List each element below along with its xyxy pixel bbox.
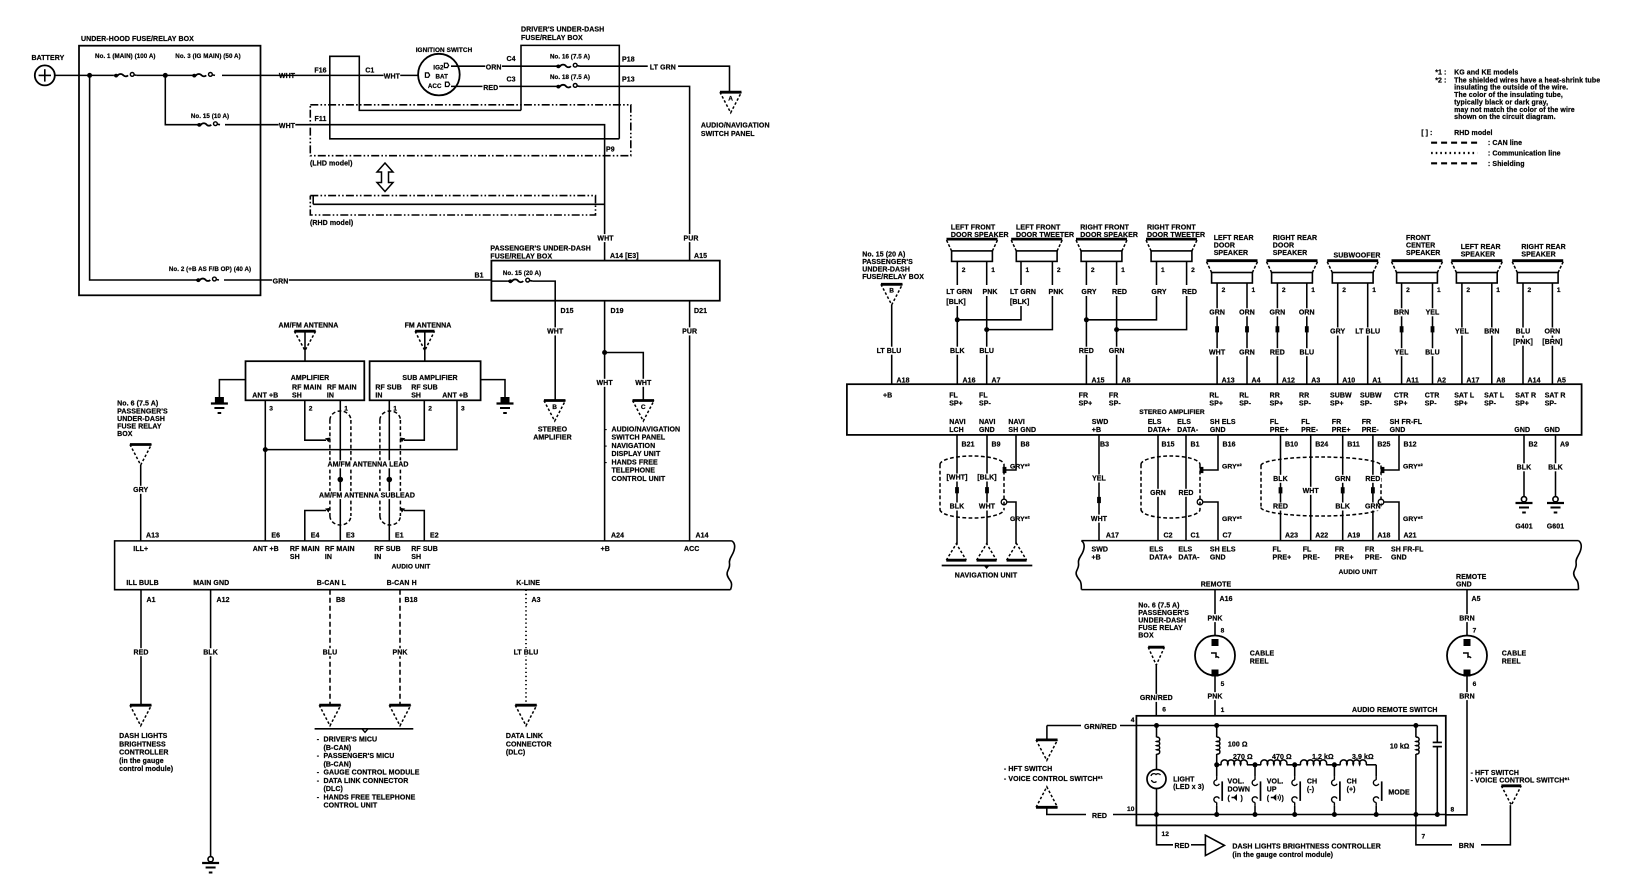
svg-text:REEL: REEL: [1502, 658, 1522, 665]
svg-text:No. 2 (+B AS F/B OP) (40 A): No. 2 (+B AS F/B OP) (40 A): [169, 266, 251, 273]
left rear speaker pins: [1466, 287, 1500, 294]
wire SH ELS GND lower tap: [1197, 499, 1218, 540]
svg-text:SP+: SP+: [1394, 401, 1408, 408]
svg-text:NAVI: NAVI: [979, 419, 996, 426]
wire PNK B-CAN H: [399, 590, 401, 706]
svg-text:WHT: WHT: [547, 329, 564, 336]
ignition switch: [416, 47, 473, 95]
wire No.2 branch GRN: [90, 75, 492, 280]
amplifier ground left: [211, 380, 246, 413]
svg-text:ILL+: ILL+: [133, 546, 148, 553]
svg-text:(-): (-): [1307, 787, 1314, 794]
svg-text:GND: GND: [1514, 427, 1530, 434]
label REMOTE GND: [1456, 574, 1487, 589]
label WHT branch left: [596, 379, 613, 387]
wire BLU B-CAN L: [329, 590, 331, 706]
svg-text:A12: A12: [217, 597, 230, 604]
label RED: [482, 84, 499, 92]
svg-text:IN: IN: [374, 554, 381, 561]
svg-text:FL: FL: [949, 393, 958, 400]
wire RED HFT to pin 10: [1047, 807, 1157, 814]
svg-text:E2: E2: [430, 532, 439, 539]
svg-text:LEFT REAR: LEFT REAR: [1461, 244, 1501, 251]
svg-text:GRY: GRY: [1151, 289, 1166, 296]
svg-text:A5: A5: [1557, 377, 1566, 384]
pin 1 audio remote switch: [1221, 707, 1225, 714]
node rail junction GRN/RED: [1154, 723, 1159, 728]
wire SH FR-FL GND lower tap: [1378, 499, 1399, 540]
svg-text:1: 1: [1161, 267, 1165, 274]
svg-text:YEL: YEL: [1426, 310, 1440, 317]
label RED ILL: [133, 648, 150, 656]
svg-text:SP+: SP+: [1270, 401, 1284, 408]
svg-text:1.2 kΩ: 1.2 kΩ: [1312, 754, 1334, 761]
svg-text:WHT: WHT: [635, 380, 652, 387]
labels wire colors upper right rear speaker: [1510, 328, 1565, 346]
label P9: [606, 147, 615, 154]
svg-text:BLK: BLK: [1517, 465, 1532, 472]
wire ELS DATA-: [1185, 435, 1187, 541]
wire LT BLU K-LINE: [525, 590, 527, 706]
svg-text:*1 :: *1 :: [1435, 69, 1446, 76]
svg-text:A23: A23: [1285, 533, 1298, 540]
svg-text:1: 1: [1496, 287, 1500, 294]
pin 3 amplifier ANT+B: [269, 406, 273, 413]
label D21: [694, 308, 707, 315]
svg-text:A14 [E3]: A14 [E3]: [610, 253, 639, 260]
fuse No. 18 (7.5 A): [521, 74, 619, 89]
buffer triangle dash lights brightness controller: [1205, 835, 1380, 859]
svg-text:B24: B24: [1315, 442, 1328, 449]
wire E2 to shield bottom: [400, 508, 425, 541]
labels navi shield wires lower: [949, 503, 996, 511]
svg-text:A17: A17: [1466, 377, 1479, 384]
label RED 12: [1174, 843, 1189, 850]
left front door tweeter: [1011, 224, 1074, 261]
svg-text:2: 2: [1342, 287, 1346, 294]
label LT BLU +B: [874, 347, 904, 355]
pin 5 cable reel L: [1221, 681, 1225, 688]
fuse No. 15 (10 A): [191, 113, 229, 127]
svg-text:F11: F11: [315, 116, 327, 123]
svg-text:RL: RL: [1239, 393, 1249, 400]
switch CH plus: [1332, 765, 1357, 815]
svg-text:UNDER-DASH: UNDER-DASH: [1138, 618, 1186, 625]
wire NAVI SH GND upper tap: [1003, 435, 1016, 473]
svg-text:FUSE/RELAY BOX: FUSE/RELAY BOX: [521, 35, 583, 42]
svg-text:BLU: BLU: [1299, 349, 1314, 356]
svg-text:SP+: SP+: [1079, 401, 1093, 408]
wire LT GRN-BLK FL SP+: [955, 261, 1021, 384]
svg-text:SP+: SP+: [1515, 401, 1529, 408]
labels wire colors upper right rear door speaker: [1269, 308, 1315, 316]
svg-text:PASSENGER'S MICU: PASSENGER'S MICU: [324, 753, 395, 760]
svg-text:SUBWOOFER: SUBWOOFER: [1334, 253, 1381, 260]
connector triangle B-CAN L: [319, 705, 341, 726]
svg-text:P9: P9: [606, 147, 615, 154]
svg-text:RF MAIN: RF MAIN: [292, 385, 322, 392]
labels wire colors lower front center speaker: [1393, 348, 1441, 356]
left rear door speaker pins: [1222, 287, 1256, 294]
svg-text:10 kΩ: 10 kΩ: [1390, 744, 1410, 751]
legend notes *1 *2: [1435, 69, 1600, 121]
list B-CAN connected units: [317, 737, 420, 810]
svg-text:ILL BULB: ILL BULB: [126, 580, 158, 587]
wires right rear speaker: [1523, 283, 1552, 384]
svg-text:No. 16 (7.5 A): No. 16 (7.5 A): [550, 54, 590, 61]
wire RF SUB SH (pin2) to shield: [400, 400, 425, 442]
svg-text:SUBW: SUBW: [1330, 393, 1352, 400]
svg-text:AUDIO REMOTE SWITCH: AUDIO REMOTE SWITCH: [1352, 707, 1438, 714]
label LT BLU k-line: [511, 648, 541, 656]
svg-text:FL: FL: [979, 393, 988, 400]
svg-text:AM/FM ANTENNA LEAD: AM/FM ANTENNA LEAD: [327, 462, 408, 469]
label PUR lower: [681, 327, 698, 335]
svg-text:G601: G601: [1547, 523, 1564, 530]
svg-text:SP+: SP+: [1454, 401, 1468, 408]
svg-text:FUSE/RELAY BOX: FUSE/RELAY BOX: [862, 274, 924, 281]
svg-text:- HFT SWITCH: - HFT SWITCH: [1471, 770, 1519, 777]
svg-text:IN: IN: [327, 393, 334, 400]
svg-text:B8: B8: [336, 597, 345, 604]
svg-text:GRN: GRN: [1150, 490, 1166, 497]
svg-text:MAIN GND: MAIN GND: [193, 580, 229, 587]
stereo amplifier box: [847, 384, 1582, 435]
label WHT above passenger box: [597, 234, 614, 242]
svg-text:GRY: GRY: [1330, 329, 1345, 336]
svg-text:GRY*²: GRY*²: [1403, 516, 1423, 523]
svg-text:insulating the outside of the: insulating the outside of the wire.: [1454, 85, 1568, 92]
label PNK lower: [1207, 692, 1224, 700]
svg-text:PNK: PNK: [1207, 615, 1222, 622]
label BLK main gnd: [202, 648, 219, 656]
svg-text:DOOR SPEAKER: DOOR SPEAKER: [951, 232, 1009, 239]
svg-text:ELS: ELS: [1148, 419, 1162, 426]
wire ANT+B bus: [263, 400, 457, 541]
label A13 audio unit: [146, 532, 159, 539]
switch CH minus: [1292, 765, 1317, 815]
svg-text:SPEAKER: SPEAKER: [1461, 251, 1495, 258]
stereo amp bottom pin labels: [962, 442, 1570, 449]
label RED FR SP+: [1078, 347, 1095, 355]
svg-text:GRN: GRN: [1335, 476, 1351, 483]
svg-text:GRY*²: GRY*²: [1222, 516, 1242, 523]
svg-text:IG2: IG2: [433, 65, 444, 72]
svg-text:[WHT]: [WHT]: [946, 475, 967, 482]
svg-text:- VOICE CONTROL SWITCH*¹: - VOICE CONTROL SWITCH*¹: [1471, 778, 1571, 785]
svg-text:A1: A1: [1372, 377, 1381, 384]
svg-text:STEREO AMPLIFIER: STEREO AMPLIFIER: [1139, 409, 1205, 416]
left rear door speaker: [1207, 235, 1258, 283]
svg-text:RED: RED: [1182, 289, 1197, 296]
svg-text:1: 1: [1372, 287, 1376, 294]
label A15: [694, 253, 707, 260]
svg-text:RF MAIN: RF MAIN: [290, 546, 320, 553]
label AM/FM ANTENNA LEAD: [326, 460, 411, 468]
svg-text:GND: GND: [1391, 555, 1407, 562]
svg-text:FR: FR: [1332, 419, 1342, 426]
connector triangle B stereo amplifier: [533, 401, 571, 442]
svg-text:SWD: SWD: [1092, 419, 1109, 426]
LHD model dash-dot border: [310, 105, 631, 168]
svg-text:PRE+: PRE+: [1273, 555, 1292, 562]
svg-text:SH: SH: [411, 554, 421, 561]
pin 8 audio remote switch: [1451, 807, 1455, 814]
svg-text:12: 12: [1162, 831, 1170, 838]
svg-text:LT BLU: LT BLU: [1355, 329, 1380, 336]
svg-text:AM/FM ANTENNA: AM/FM ANTENNA: [279, 323, 339, 330]
stereo amp top pin names row: [883, 393, 1566, 408]
svg-text:SP-: SP-: [979, 401, 991, 408]
label GRN/RED left: [1083, 723, 1118, 731]
wire GRY ILL+: [140, 465, 142, 541]
svg-text:DATA-: DATA-: [1177, 427, 1199, 434]
svg-text:G401: G401: [1515, 523, 1532, 530]
svg-text:B8: B8: [1021, 442, 1030, 449]
ground G601: [1545, 497, 1566, 531]
svg-text:RF SUB: RF SUB: [411, 546, 438, 553]
svg-text:AUDIO UNIT: AUDIO UNIT: [1339, 569, 1378, 576]
ground G401: [1513, 497, 1534, 531]
wire NAVI SH GND lower tap: [1001, 499, 1016, 544]
svg-text:GRN: GRN: [1270, 310, 1286, 317]
wire SH FR-FL GND upper tap: [1381, 435, 1399, 473]
svg-text:FR: FR: [1109, 393, 1119, 400]
wire RF MAIN SH (pin2) to shield: [305, 400, 331, 442]
wire No.15 branch: [165, 75, 302, 124]
svg-text:A3: A3: [1311, 377, 1320, 384]
wire P9 loop (driver's box feed): [330, 56, 620, 139]
pin 2 amplifier RF MAIN SH: [309, 406, 313, 413]
svg-text:FUSE RELAY: FUSE RELAY: [1138, 625, 1183, 632]
label BRN 7: [1459, 843, 1474, 850]
svg-text:AMPLIFIER: AMPLIFIER: [533, 435, 571, 442]
svg-text:(in the gauge: (in the gauge: [119, 758, 164, 765]
svg-text:D19: D19: [611, 308, 624, 315]
svg-text:1: 1: [1221, 707, 1225, 714]
svg-text:WHT: WHT: [1209, 349, 1226, 356]
svg-text:GND: GND: [1390, 427, 1406, 434]
svg-text:DASH LIGHTS BRIGHTNESS CONTROL: DASH LIGHTS BRIGHTNESS CONTROLLER: [1232, 844, 1380, 851]
svg-text:SP-: SP-: [1545, 401, 1557, 408]
svg-text:RIGHT REAR: RIGHT REAR: [1521, 244, 1565, 251]
pin 7 cable reel R: [1473, 628, 1477, 635]
svg-text:CONTROL UNIT: CONTROL UNIT: [324, 803, 378, 810]
label WHT before ignition: [384, 72, 401, 80]
labels GRY*2 pre: [1403, 464, 1423, 523]
left rear speaker: [1451, 244, 1502, 283]
svg-text:typically black or dark gray,: typically black or dark gray,: [1454, 99, 1548, 106]
wires front center speaker: [1400, 283, 1435, 384]
svg-text:K-LINE: K-LINE: [516, 580, 540, 587]
svg-text:SWITCH PANEL: SWITCH PANEL: [701, 131, 755, 138]
label GRY tweeter FR: [1151, 289, 1166, 296]
svg-text:A16: A16: [963, 377, 976, 384]
label BRN upper: [1459, 614, 1476, 622]
shield AM/FM antenna sublead right: [380, 411, 401, 525]
labels wire colors upper left rear door speaker: [1209, 308, 1256, 316]
svg-text:FL: FL: [1270, 419, 1279, 426]
svg-text:A22: A22: [1315, 533, 1328, 540]
svg-text:2: 2: [1222, 287, 1226, 294]
svg-text:CH: CH: [1347, 778, 1357, 785]
node junction 270: [1214, 762, 1219, 767]
svg-text:CONNECTOR: CONNECTOR: [506, 741, 552, 748]
svg-text:1: 1: [1437, 287, 1441, 294]
svg-text:GRN: GRN: [1209, 310, 1225, 317]
label RED speaker FR: [1112, 289, 1127, 296]
svg-text:PRE-: PRE-: [1303, 555, 1321, 562]
svg-text:BLU: BLU: [323, 649, 338, 656]
label B1: [474, 273, 483, 280]
svg-text:BLK: BLK: [950, 504, 965, 511]
pin 6 cable reel R: [1473, 681, 1477, 688]
left front door speaker pins: [962, 267, 995, 274]
connector triangle HFT upper left: [1036, 740, 1058, 761]
label WHT main: [279, 72, 296, 80]
RHD model dash-dot border: [310, 196, 596, 228]
svg-text:+B: +B: [883, 393, 892, 400]
pin 1 sub RF SUB IN: [393, 406, 397, 413]
svg-text:DASH LIGHTS: DASH LIGHTS: [119, 733, 168, 740]
label pin A8 FR: [1122, 377, 1131, 384]
label AM/FM ANTENNA SUBLEAD: [318, 491, 417, 499]
node bottom rail junctions: [1154, 812, 1440, 817]
node junction 3.9k: [1332, 762, 1337, 767]
list HFT switch left: [1004, 766, 1104, 783]
svg-text:DATA+: DATA+: [1148, 427, 1171, 434]
brace B-CAN targets: [315, 729, 414, 733]
shield AM/FM antenna lead+sublead left: [330, 411, 351, 525]
wire light to bottom rail: [1156, 789, 1158, 815]
wire WHT F11 (LHD route): [302, 125, 605, 261]
FM antenna: [405, 323, 452, 362]
svg-text:VOL.: VOL.: [1228, 778, 1245, 785]
svg-text:A: A: [728, 96, 733, 103]
label D15: [561, 308, 574, 315]
svg-text:A9: A9: [1560, 442, 1569, 449]
svg-text:(DLC): (DLC): [506, 750, 525, 757]
navigation unit underline: [942, 566, 1033, 580]
svg-text:(B-CAN): (B-CAN): [324, 761, 352, 768]
list HFT switch right: [1471, 770, 1571, 785]
svg-text:No. 15 (20 A): No. 15 (20 A): [503, 270, 541, 277]
svg-text:2: 2: [1528, 287, 1532, 294]
wire bottom rail inside switch: [1157, 814, 1446, 816]
svg-text:BOX: BOX: [1138, 633, 1154, 640]
svg-text:- HFT SWITCH: - HFT SWITCH: [1004, 766, 1052, 773]
svg-text:DRIVER'S MICU: DRIVER'S MICU: [324, 737, 378, 744]
fuse No. 16 (7.5 A): [521, 54, 619, 69]
svg-text:A8: A8: [1122, 377, 1131, 384]
svg-text:RED: RED: [1079, 348, 1094, 355]
subwoofer pins: [1342, 287, 1376, 294]
svg-text:BRN: BRN: [1459, 615, 1474, 622]
right rear door speaker: [1267, 235, 1318, 283]
svg-text:C7: C7: [1223, 533, 1232, 540]
svg-text:B1: B1: [1191, 442, 1200, 449]
svg-text:PRE+: PRE+: [1332, 427, 1351, 434]
label BRN lower: [1459, 692, 1476, 700]
svg-text:FR: FR: [1079, 393, 1089, 400]
label No. 6 fuse box left: [117, 401, 168, 438]
label ORN: [485, 63, 502, 71]
svg-text:GRY*²: GRY*²: [1403, 464, 1423, 471]
wire GRN/RED No.6 to switch: [1155, 665, 1157, 716]
svg-text:GRN/RED: GRN/RED: [1140, 695, 1173, 702]
svg-text:DOOR TWEETER: DOOR TWEETER: [1147, 232, 1205, 239]
svg-text:1: 1: [991, 267, 995, 274]
svg-text:DOOR SPEAKER: DOOR SPEAKER: [1080, 232, 1138, 239]
sub amplifier box: [370, 361, 481, 400]
labels wire colors lower left rear door speaker: [1209, 348, 1256, 356]
pin 7: [1422, 833, 1426, 840]
wire RF MAIN IN: [339, 400, 341, 541]
resistor 270 ohm: [1217, 754, 1255, 765]
pin labels front center speaker: [1406, 377, 1446, 384]
pin 3 sub ANT+B: [461, 406, 465, 413]
svg-text:B: B: [552, 404, 557, 411]
svg-text:PASSENGER'S: PASSENGER'S: [862, 259, 913, 266]
wires left rear speaker: [1462, 283, 1492, 384]
svg-text:6: 6: [1473, 681, 1477, 688]
labels LT GRN [BLK] speaker: [946, 289, 972, 306]
svg-text:No. 1 (MAIN) (100 A): No. 1 (MAIN) (100 A): [95, 53, 156, 60]
svg-text:REMOTE: REMOTE: [1456, 574, 1487, 581]
label pin A7: [992, 377, 1001, 384]
label A16: [1220, 596, 1233, 603]
svg-text:A15: A15: [694, 253, 707, 260]
wire GRY-RED FR SP+: [1084, 261, 1157, 384]
wire FR PRE+: [1341, 435, 1345, 541]
svg-text:1: 1: [1026, 267, 1030, 274]
wire WHT D19 to C and audio unit +B: [602, 301, 643, 541]
svg-text:SAT L: SAT L: [1484, 393, 1505, 400]
svg-text:SP-: SP-: [1425, 401, 1437, 408]
wire IG2 ORN to driver's box C4: [451, 65, 521, 67]
svg-text:A10: A10: [1342, 377, 1355, 384]
svg-text:RF SUB: RF SUB: [374, 546, 401, 553]
audio remote switch box: [1136, 707, 1445, 825]
svg-text:DATA-: DATA-: [1178, 555, 1200, 562]
shield FL/FR PRE wires: [1261, 457, 1381, 516]
right front door speaker: [1076, 224, 1138, 261]
pin labels right rear speaker: [1528, 377, 1567, 384]
switch MODE: [1373, 765, 1410, 815]
svg-text:SH GND: SH GND: [1008, 427, 1036, 434]
svg-text:BRN: BRN: [1394, 310, 1409, 317]
svg-text:B11: B11: [1347, 442, 1360, 449]
svg-text:BOX: BOX: [117, 431, 133, 438]
wire WHT F16-C1 to ignition BAT: [261, 74, 419, 76]
svg-text:C: C: [641, 404, 646, 411]
pin labels left rear door speaker: [1222, 377, 1261, 384]
svg-text:LIGHT: LIGHT: [1173, 776, 1195, 783]
label A5: [1472, 596, 1481, 603]
connector triangle K-LINE DLC: [506, 705, 552, 756]
label GRN FR SP-: [1108, 347, 1125, 355]
svg-text:P13: P13: [622, 76, 635, 83]
svg-text:RIGHT REAR: RIGHT REAR: [1273, 235, 1317, 242]
svg-text:PRE+: PRE+: [1335, 555, 1354, 562]
label WHT No.15: [279, 122, 296, 130]
svg-text:[BLK]: [BLK]: [946, 299, 965, 306]
svg-text:RHD model: RHD model: [1454, 130, 1492, 137]
svg-text:D21: D21: [694, 308, 707, 315]
labels wire colors upper front center speaker: [1393, 308, 1441, 316]
svg-text:ANT +B: ANT +B: [252, 393, 278, 400]
svg-text:BLK: BLK: [950, 348, 965, 355]
